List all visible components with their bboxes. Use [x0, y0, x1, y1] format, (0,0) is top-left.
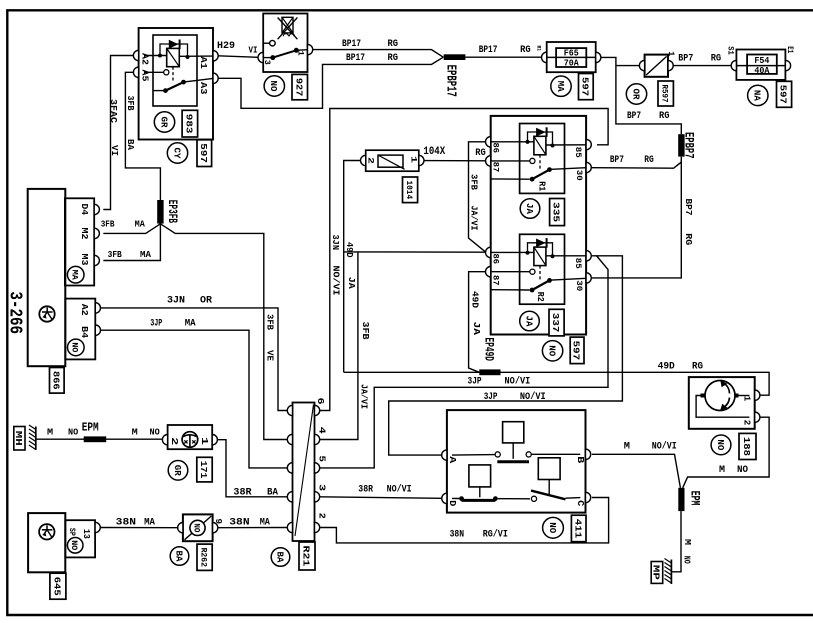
svg-text:NO/VI: NO/VI: [652, 441, 677, 453]
motor 171 pump: [168, 425, 213, 449]
module 411 fuel pump relay plate: [447, 410, 586, 512]
svg-text:F54: F54: [754, 56, 770, 66]
connector colour OR of R597: [626, 84, 646, 104]
svg-text:RG: RG: [388, 38, 399, 50]
svg-text:RG/VI: RG/VI: [483, 529, 508, 541]
svg-text:3FB: 3FB: [125, 96, 136, 111]
wire BP7 RG from relay R2 pin 30 up to splice EPBP7: [592, 160, 681, 278]
svg-text:5: 5: [317, 456, 327, 463]
svg-text:BA: BA: [125, 139, 136, 150]
wire M NO from socket 188 pin 2 to splice EPM: [683, 417, 769, 488]
svg-text:3JN: 3JN: [167, 295, 185, 306]
connector colour JA of R2: [520, 311, 540, 331]
fuse F54 40A: [736, 50, 785, 80]
svg-text:597: 597: [571, 341, 582, 361]
code box R262: [197, 544, 212, 570]
code box 411: [571, 515, 586, 542]
svg-text:NO/VI: NO/VI: [387, 484, 412, 496]
svg-text:983: 983: [183, 114, 194, 134]
wire 3FB BA from relay 983 pin A5 to splice EP3FB: [125, 72, 160, 200]
code box R21: [299, 542, 315, 570]
connector colour GR of 171: [168, 461, 188, 481]
wire RG from resistor 104X pin 1 to relay R1 pins 86 and 87: [424, 160, 486, 162]
wire BP17 RG from switch 927 pin 1 to splice EPBP17: [313, 50, 444, 58]
splice EPBP17: [444, 54, 466, 60]
svg-text:645: 645: [51, 577, 62, 596]
code box 927: [292, 74, 308, 99]
svg-text:B: B: [575, 456, 585, 464]
svg-text:49D: 49D: [344, 242, 355, 258]
svg-text:38N: 38N: [116, 517, 136, 528]
ground MP: [670, 560, 672, 585]
svg-text:JA: JA: [524, 203, 534, 215]
connector colour NO of relay box: [542, 341, 562, 361]
code box 1014: [403, 177, 418, 203]
svg-text:D: D: [447, 500, 457, 507]
wire 38R BA from motor 171 pin 1 to connector R21 pin 3 left: [218, 440, 288, 497]
svg-text:1: 1: [741, 396, 751, 402]
svg-text:MA: MA: [70, 270, 80, 281]
svg-text:JA: JA: [471, 322, 482, 336]
svg-text:JA: JA: [523, 316, 533, 328]
svg-text:86: 86: [490, 254, 500, 265]
wire 3FB VE from splice EP3FB to connector R21 pin 4 left: [160, 224, 288, 440]
wire VI from relay 983 pin A1 to switch 927 pin 3: [218, 56, 258, 58]
svg-text:1: 1: [199, 437, 209, 446]
svg-text:2: 2: [742, 420, 752, 426]
wire 3FB JA/VI from relay R1 down to relay R2 pin 86: [469, 161, 486, 253]
svg-text:38R: 38R: [358, 485, 373, 496]
svg-text:D4: D4: [79, 204, 89, 216]
wire BP17 RG from splice EPBP17 to fuse F65: [465, 56, 541, 58]
wire 49D JA from relay R2 pin 87 to splice EP49D: [469, 272, 486, 373]
code box 983: [182, 110, 198, 137]
svg-text:NO: NO: [68, 426, 78, 437]
svg-text:1: 1: [666, 51, 676, 56]
svg-text:2: 2: [365, 157, 375, 164]
svg-text:R2: R2: [535, 292, 546, 302]
svg-text:BP7: BP7: [683, 199, 694, 216]
svg-text:H29: H29: [217, 40, 235, 52]
wire 3FAC VI from 3-266 pin D4 to relay 983 pin A2: [103, 56, 134, 210]
svg-text:2: 2: [169, 437, 179, 445]
svg-text:RG: RG: [659, 110, 670, 122]
svg-text:GR: GR: [172, 465, 182, 477]
svg-text:E1: E1: [785, 46, 794, 53]
svg-text:4: 4: [317, 427, 327, 435]
svg-text:SP: SP: [67, 528, 76, 536]
connector block D4/M2/M3 of 3-266: [65, 198, 94, 285]
wire 3JN OR from 3-266 pin A2 to connector R21 pin 6 left: [101, 308, 289, 411]
connector colour MA of 3-266 upper block: [67, 266, 84, 283]
svg-text:VE: VE: [264, 350, 275, 361]
svg-text:597: 597: [579, 77, 590, 97]
svg-text:49D: 49D: [658, 361, 675, 373]
wire M NO from splice EPM to ground MP: [671, 511, 681, 572]
wire 3JP NO/VI lower from relay R2 pin 85 to module 411 pin A: [389, 256, 623, 455]
svg-text:BP17: BP17: [342, 38, 361, 50]
svg-text:C: C: [575, 500, 585, 507]
connector colour BA of R262: [170, 547, 189, 566]
svg-text:BP7: BP7: [627, 110, 641, 122]
svg-text:MH: MH: [13, 431, 24, 446]
svg-text:3FB: 3FB: [360, 322, 371, 340]
wire 49D JA horizontal to relay R2 pin 86 with riser to R21 pin 4 right: [344, 251, 486, 253]
code box 597 of 983: [197, 140, 212, 167]
svg-text:JA: JA: [346, 277, 357, 289]
svg-text:3FAC: 3FAC: [108, 99, 119, 123]
svg-text:OR: OR: [200, 295, 212, 306]
socket 188 accessories: [689, 377, 755, 429]
svg-text:S1: S1: [726, 46, 735, 55]
svg-text:BP7: BP7: [610, 154, 624, 166]
svg-text:1: 1: [295, 51, 305, 56]
wire BP17 RG from relay 983 pin A3 to splice EPBP17: [218, 57, 443, 108]
svg-text:927: 927: [293, 78, 304, 97]
svg-text:MP: MP: [650, 565, 661, 580]
svg-text:3JN: 3JN: [330, 235, 341, 251]
svg-text:MA: MA: [555, 81, 565, 93]
splice EPBP7: [678, 134, 684, 156]
svg-text:EP3FB: EP3FB: [165, 200, 179, 224]
connector colour NO of 188: [711, 435, 731, 455]
svg-text:RG: RG: [520, 44, 531, 56]
svg-text:337: 337: [550, 313, 561, 333]
switch 645 ignition: [28, 513, 65, 572]
svg-text:A: A: [447, 456, 457, 464]
svg-text:188: 188: [741, 437, 752, 456]
svg-text:86: 86: [490, 143, 500, 154]
relay box containing R1 and R2: [491, 116, 586, 335]
code box 597 of F65: [579, 74, 594, 100]
svg-text:R597: R597: [660, 85, 670, 103]
splice EPM left: [84, 436, 107, 442]
svg-text:M: M: [719, 465, 725, 476]
code box 866: [50, 368, 65, 394]
svg-text:NA: NA: [752, 90, 762, 102]
svg-text:597: 597: [778, 85, 789, 104]
svg-text:F65: F65: [564, 49, 579, 59]
svg-text:B1: B1: [536, 46, 543, 52]
connector colour MA of F65: [551, 76, 571, 96]
svg-text:3FB: 3FB: [468, 174, 479, 190]
svg-text:M3: M3: [79, 254, 89, 266]
svg-text:R21: R21: [301, 546, 312, 567]
svg-text:85: 85: [573, 147, 583, 158]
svg-text:GR: GR: [158, 117, 168, 129]
svg-text:RG: RG: [644, 154, 654, 166]
wire 3FB MA from 3-266 pin M3 to splice EP3FB: [103, 224, 160, 261]
svg-text:1014: 1014: [404, 181, 414, 200]
svg-text:BA: BA: [173, 551, 183, 563]
svg-text:RG: RG: [388, 52, 399, 64]
svg-text:3FB: 3FB: [264, 314, 275, 330]
svg-text:MA: MA: [135, 219, 145, 230]
svg-text:NO: NO: [737, 465, 748, 476]
wire BP7 RG from diode R597 to fuse F54: [673, 65, 731, 67]
svg-text:NO: NO: [150, 426, 160, 437]
svg-text:104X: 104X: [423, 146, 445, 158]
svg-text:3FB: 3FB: [108, 249, 122, 260]
resistor 104X: [366, 150, 419, 171]
wire 38N RG/VI from connector R21 pin 2 right to module 411 pin C: [320, 498, 609, 543]
svg-text:38N: 38N: [450, 530, 465, 541]
svg-text:A2: A2: [140, 53, 150, 65]
svg-text:MA: MA: [185, 318, 196, 329]
svg-text:NO: NO: [682, 556, 692, 564]
connector colour NO of 645: [67, 538, 83, 554]
connector colour NA of F54: [748, 85, 768, 105]
svg-text:JA/VI: JA/VI: [469, 206, 480, 231]
connector colour BA of R21: [271, 548, 290, 567]
svg-text:NO: NO: [546, 345, 556, 357]
connector colour NO of 3-266 lower block: [68, 339, 85, 356]
svg-text:49D: 49D: [470, 291, 481, 308]
svg-text:38N: 38N: [229, 517, 249, 528]
wire BP7 RG from splice EPBP7 to relay R1 pin 30: [592, 157, 681, 169]
connector colour GR of 983: [154, 112, 174, 132]
svg-text:RG: RG: [711, 53, 722, 65]
svg-text:87: 87: [490, 162, 500, 173]
svg-text:BA: BA: [274, 552, 284, 564]
svg-text:85: 85: [573, 258, 583, 269]
svg-text:411: 411: [572, 519, 583, 539]
wire 3JP MA from 3-266 pin B4 to connector R21 pin 5 left: [101, 330, 289, 468]
connector block of 645: [65, 520, 95, 557]
svg-text:30: 30: [574, 280, 584, 291]
svg-text:NO: NO: [268, 81, 278, 93]
svg-text:NO/VI: NO/VI: [505, 375, 531, 387]
svg-text:3: 3: [317, 484, 327, 491]
ground MH: [35, 427, 37, 451]
svg-text:1: 1: [409, 156, 419, 163]
connector colour NO of 411: [543, 517, 564, 538]
splice EP49D: [479, 369, 500, 375]
code box 171: [197, 457, 212, 482]
svg-text:A1: A1: [198, 57, 208, 70]
wire M NO from ground MH through splice EPM to motor 171 pin 2: [36, 438, 163, 440]
splice EPM right: [678, 488, 684, 511]
svg-text:2: 2: [317, 513, 327, 519]
svg-text:3: 3: [262, 60, 272, 65]
connector block A2/B4 of 3-266: [65, 299, 95, 360]
svg-text:M: M: [624, 442, 630, 453]
svg-text:RG: RG: [692, 361, 703, 373]
component 3-266 control unit: [28, 189, 66, 366]
relay R1: [520, 124, 565, 194]
svg-text:M: M: [47, 426, 53, 437]
svg-text:EPBP17: EPBP17: [442, 65, 457, 97]
wire 3FB MA from 3-266 pin M2 to splice EP3FB: [103, 224, 160, 234]
svg-text:MA: MA: [140, 249, 151, 260]
svg-text:A5: A5: [140, 70, 150, 82]
svg-text:R262: R262: [199, 548, 209, 567]
svg-text:VI: VI: [249, 44, 258, 55]
wire 38N MA from diode R262 to connector R21 pin 2 left: [218, 527, 288, 529]
svg-text:NO: NO: [715, 439, 725, 451]
svg-text:70A: 70A: [564, 59, 580, 69]
svg-text:335: 335: [551, 202, 562, 222]
svg-text:866: 866: [50, 371, 61, 390]
svg-text:3JP: 3JP: [150, 318, 162, 329]
svg-text:M: M: [132, 426, 138, 437]
diode R597: [645, 55, 668, 77]
connector colour NO of 927: [264, 76, 284, 96]
relay R2: [520, 234, 565, 304]
fuse F65 70A: [547, 42, 596, 72]
wire 3JP NO/VI upper from relay R2 pin 85 to connector R21 pin 5 right: [320, 256, 608, 468]
connector colour JA of R1: [520, 199, 540, 219]
svg-text:NO: NO: [70, 342, 80, 352]
svg-text:13: 13: [81, 529, 91, 539]
wire 38R NO/VI from connector R21 pin 3 right to module 411 pin D: [320, 497, 442, 499]
splice EP3FB: [157, 200, 163, 224]
svg-text:NO/VI: NO/VI: [520, 391, 546, 403]
svg-text:JA/VI: JA/VI: [359, 384, 370, 409]
code box 645: [50, 573, 66, 599]
connector strip R21: [293, 403, 315, 542]
code box 337: [549, 309, 564, 336]
svg-text:BA: BA: [267, 487, 278, 498]
svg-text:BP17: BP17: [346, 52, 365, 64]
svg-text:BP7: BP7: [678, 53, 693, 65]
svg-text:EP49D: EP49D: [481, 338, 495, 362]
svg-text:3FB: 3FB: [101, 219, 115, 230]
svg-text:87: 87: [490, 275, 500, 286]
wire RG from fuse F65 to splice EPBP7: [601, 57, 681, 134]
svg-text:38R: 38R: [233, 487, 251, 498]
svg-text:VI: VI: [109, 145, 120, 156]
svg-text:3JP: 3JP: [468, 376, 482, 387]
connector colour CY of 983: [167, 143, 187, 163]
svg-text:B4: B4: [79, 326, 89, 339]
svg-text:M2: M2: [79, 228, 89, 240]
svg-text:A2: A2: [79, 304, 89, 316]
svg-text:M: M: [682, 539, 692, 545]
code box 597 of F54: [777, 81, 792, 107]
code box 188: [739, 433, 756, 459]
svg-text:3-266: 3-266: [4, 291, 24, 334]
diode R262: [183, 514, 213, 541]
wire 3JN NO/VI from connector R21 pin 6 right to relay R1 pin 85: [320, 109, 608, 411]
svg-text:171: 171: [198, 461, 209, 479]
svg-text:NO: NO: [192, 523, 201, 532]
svg-text:OR: OR: [630, 89, 640, 101]
svg-text:NO/VI: NO/VI: [331, 266, 342, 296]
svg-text:NO: NO: [547, 522, 557, 534]
code box 597 of relay box: [570, 337, 584, 364]
svg-text:RG: RG: [683, 233, 694, 245]
svg-text:MA: MA: [144, 517, 155, 528]
svg-text:EPM: EPM: [82, 421, 99, 435]
svg-text:EPM: EPM: [688, 491, 702, 506]
svg-text:6: 6: [315, 398, 325, 405]
svg-text:CY: CY: [171, 148, 181, 160]
svg-text:RG: RG: [475, 147, 486, 159]
relay 983: [139, 28, 213, 140]
svg-text:40A: 40A: [754, 66, 770, 76]
svg-text:EPBP7: EPBP7: [682, 132, 696, 159]
wire 49D JA from resistor 104X pin 2 down the left riser: [344, 161, 361, 373]
wire 38N MA from switch 645 pin 13 to diode R262: [100, 527, 177, 529]
svg-text:3JP: 3JP: [484, 392, 498, 403]
wire 49D RG trunk through splice EP49D to socket 188 pin 1: [344, 372, 769, 395]
svg-text:597: 597: [198, 143, 209, 163]
svg-text:9: 9: [213, 519, 223, 525]
wire BP7 RG tee from diode R597 pin to EPBP7 riser: [616, 65, 640, 67]
code box 335: [550, 199, 565, 226]
svg-text:A3: A3: [198, 82, 208, 95]
svg-text:MA: MA: [260, 517, 270, 528]
svg-text:R1: R1: [537, 181, 548, 191]
svg-text:NO: NO: [69, 540, 79, 550]
svg-text:30: 30: [574, 170, 584, 181]
code box R597: [658, 81, 673, 106]
svg-text:BP17: BP17: [479, 44, 498, 56]
wire M NO/VI from module 411 pin B to splice EPM: [592, 454, 681, 488]
switch 927 hazard: [263, 14, 307, 73]
